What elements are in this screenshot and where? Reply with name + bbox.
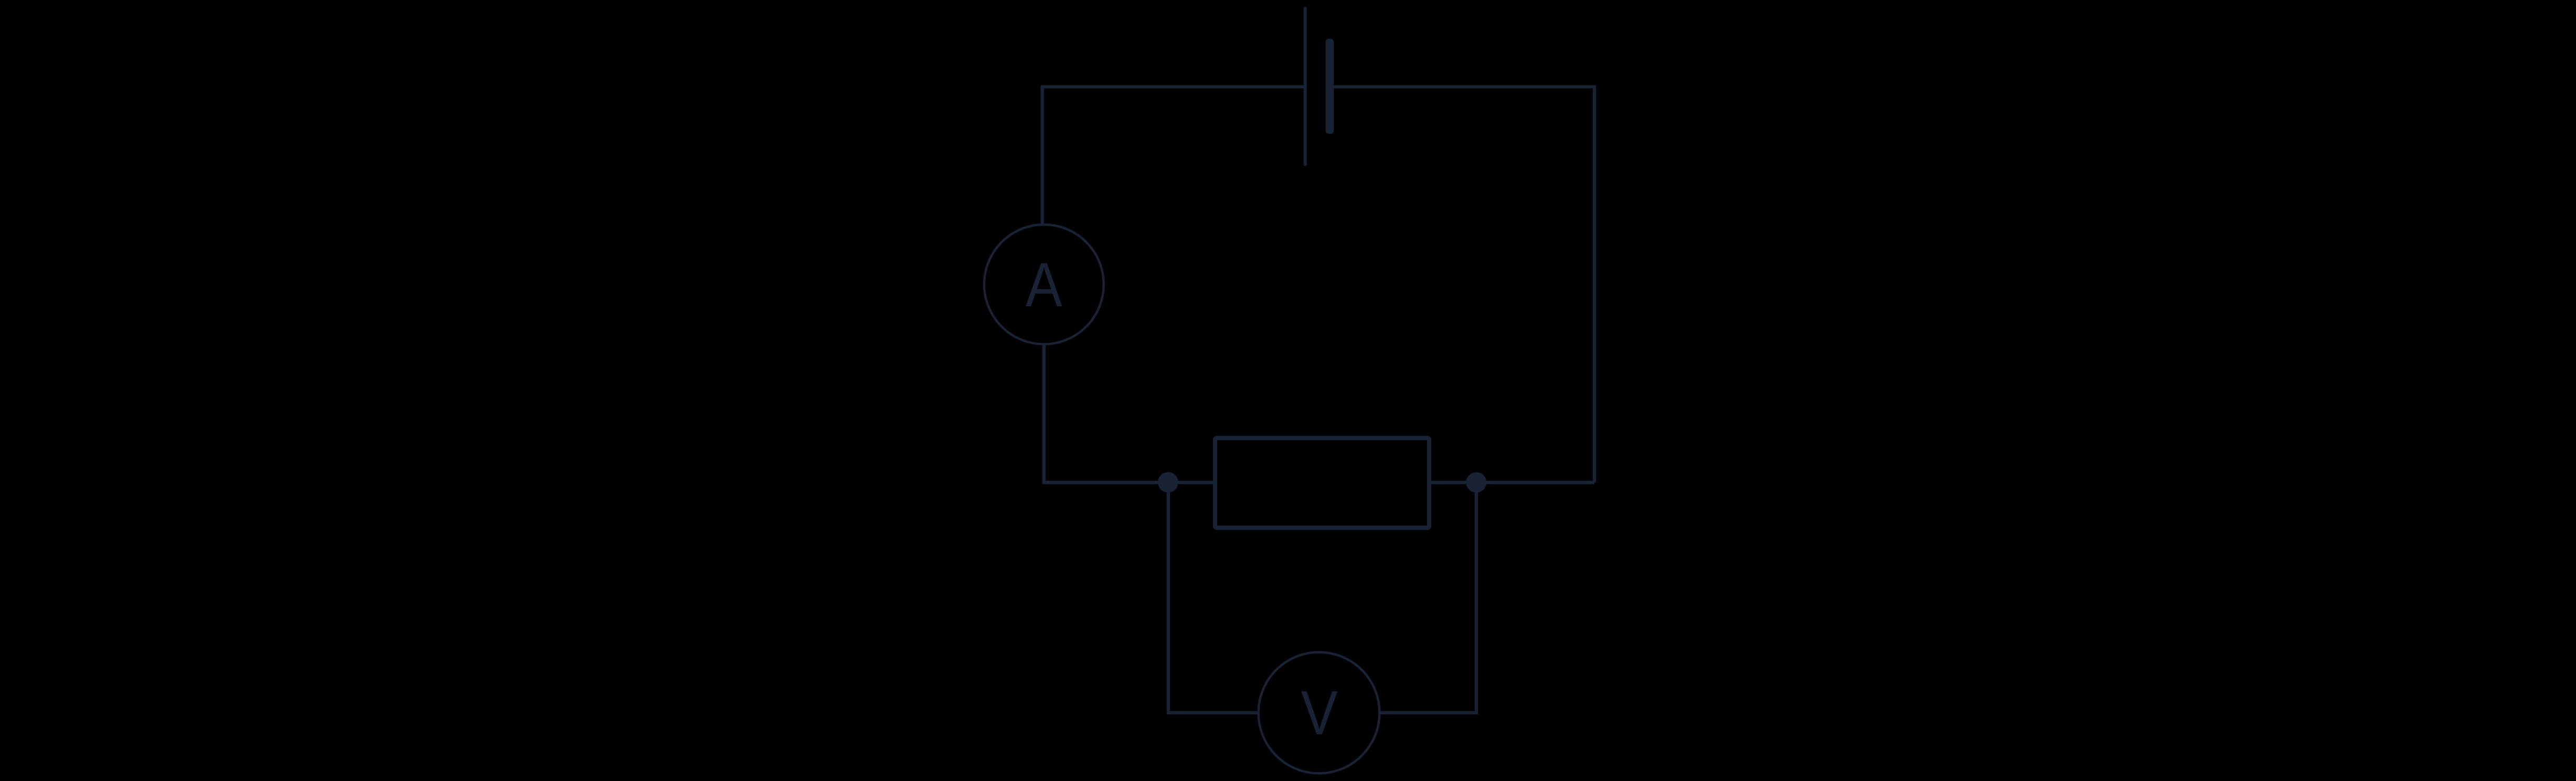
wire top-right segment (battery positive to top-right corner) xyxy=(1331,87,1594,482)
battery cell short thick plate xyxy=(1326,39,1334,134)
ammeter A1 circle xyxy=(984,225,1104,344)
junction node dot left xyxy=(1158,472,1178,492)
svg-text:V: V xyxy=(1301,678,1338,748)
svg-text:A: A xyxy=(1026,250,1062,320)
wire top-left segment (battery negative to top-left corner) xyxy=(1042,87,1304,227)
wire bottom segment resistor to dot2 xyxy=(1430,481,1594,484)
wire voltmeter branch right (voltmeter right, up to dot2) xyxy=(1379,482,1476,713)
wire left lower segment (ammeter bottom to bottom-left corner) xyxy=(1044,342,1168,482)
wire bottom segment dot1 to resistor xyxy=(1168,481,1214,484)
battery cell long thin plate xyxy=(1304,8,1307,164)
wire voltmeter branch left (dot1 down, to voltmeter left) xyxy=(1168,482,1259,713)
voltmeter V1 circle xyxy=(1259,652,1380,774)
ammeter A1 label "A" xyxy=(1026,250,1062,320)
junction node dot right xyxy=(1466,472,1486,493)
voltmeter V1 label "V" xyxy=(1301,678,1338,748)
resistor R1 body xyxy=(1215,438,1429,528)
